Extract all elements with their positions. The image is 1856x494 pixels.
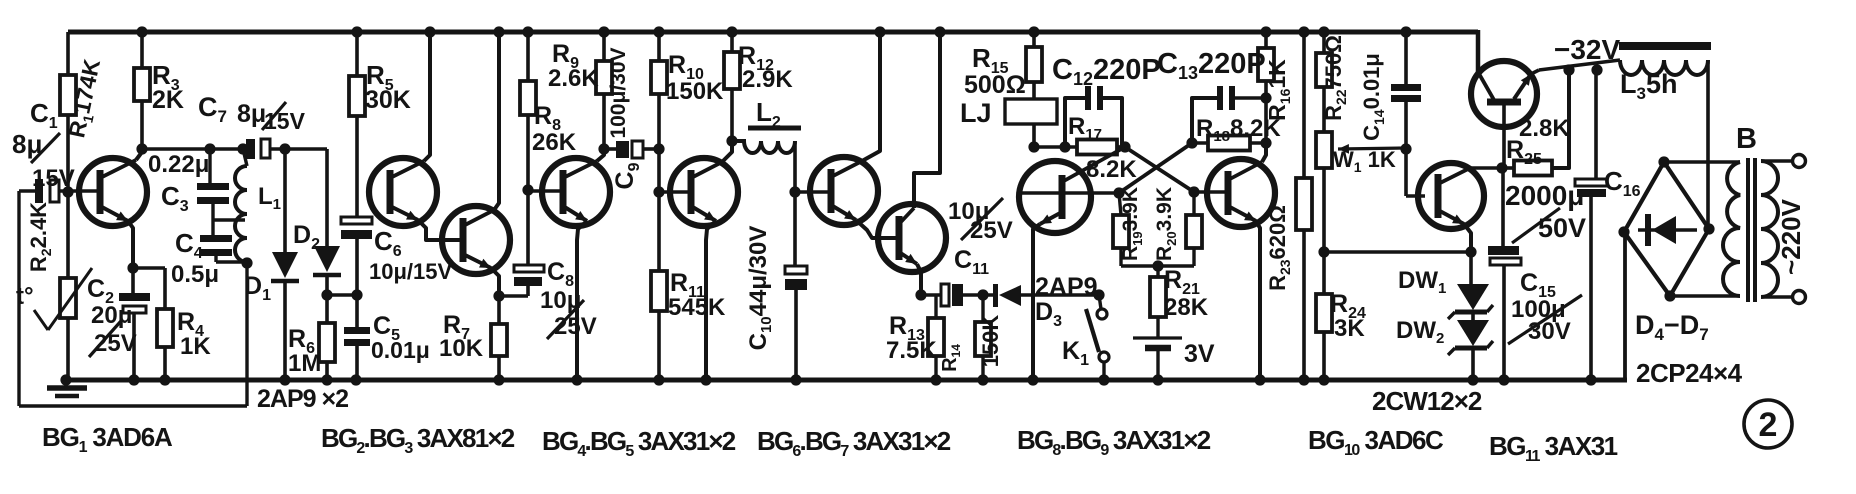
svg-text:~220V: ~220V	[1776, 198, 1806, 275]
svg-text:C13​220P: C13​220P	[1157, 48, 1266, 83]
svg-text:26K: 26K	[532, 129, 577, 156]
svg-text:0.22μ: 0.22μ	[148, 151, 209, 178]
svg-text:25V: 25V	[94, 330, 137, 357]
svg-text:C12​220P: C12​220P	[1052, 54, 1161, 89]
svg-text:−32V: −32V	[1554, 34, 1620, 65]
svg-text:1M: 1M	[288, 350, 321, 377]
svg-text:10μ/15V: 10μ/15V	[369, 259, 453, 284]
svg-text:25V: 25V	[554, 313, 597, 340]
svg-text:3V: 3V	[1184, 340, 1215, 368]
svg-text:2000μ: 2000μ	[1505, 180, 1584, 211]
svg-text:500Ω: 500Ω	[964, 71, 1026, 99]
svg-text:10K: 10K	[439, 335, 484, 362]
svg-text:L3​5h: L3​5h	[1620, 69, 1677, 103]
svg-text:BG11​ 3AX31: BG11​ 3AX31	[1489, 431, 1618, 465]
svg-text:30K: 30K	[365, 86, 411, 114]
svg-text:2CP24×4: 2CP24×4	[1636, 358, 1743, 388]
svg-text:2AP9 ×2: 2AP9 ×2	[257, 385, 348, 413]
svg-text:150K: 150K	[978, 315, 1003, 368]
svg-text:2: 2	[1759, 406, 1778, 444]
svg-text:D4​−D7​: D4​−D7​	[1635, 310, 1709, 344]
svg-text:2.9K: 2.9K	[742, 66, 793, 93]
svg-text:20μ: 20μ	[91, 302, 132, 329]
svg-text:545K: 545K	[668, 294, 726, 321]
svg-text:C14​0.01μ: C14​0.01μ	[1359, 53, 1387, 141]
svg-text:2CW12×2: 2CW12×2	[1372, 386, 1482, 416]
svg-text:2AP9: 2AP9	[1035, 273, 1098, 301]
svg-text:B: B	[1736, 123, 1757, 155]
svg-text:7.5K: 7.5K	[886, 337, 937, 364]
svg-text:0.5μ: 0.5μ	[171, 261, 219, 288]
svg-text:2.8K: 2.8K	[1519, 115, 1570, 142]
svg-text:BG2​.BG3​ 3AX81×2: BG2​.BG3​ 3AX81×2	[321, 423, 515, 457]
svg-text:W1​ 1K: W1​ 1K	[1333, 147, 1396, 175]
svg-text:50V: 50V	[1538, 213, 1586, 243]
svg-text:30V: 30V	[1528, 318, 1571, 345]
svg-text:15V: 15V	[32, 165, 75, 192]
svg-text:BG10​ 3AD6C: BG10​ 3AD6C	[1308, 425, 1444, 459]
svg-text:15V: 15V	[264, 108, 306, 134]
svg-text:25V: 25V	[970, 217, 1013, 244]
svg-text:BG4​.BG5​ 3AX31×2: BG4​.BG5​ 3AX31×2	[542, 426, 736, 460]
svg-text:BG6​.BG7​ 3AX31×2: BG6​.BG7​ 3AX31×2	[757, 426, 951, 460]
svg-text:R20​3.9K: R20​3.9K	[1153, 187, 1179, 261]
svg-text:t°: t°	[16, 283, 34, 310]
svg-text:R19​3.9K: R19​3.9K	[1119, 187, 1145, 261]
svg-text:R23​620Ω: R23​620Ω	[1265, 205, 1293, 291]
svg-text:28K: 28K	[1164, 294, 1209, 321]
svg-text:150K: 150K	[666, 78, 724, 105]
svg-text:LJ: LJ	[960, 98, 992, 128]
svg-text:2K: 2K	[152, 86, 184, 114]
svg-text:2.6K: 2.6K	[548, 65, 599, 92]
svg-text:100μ/30V: 100μ/30V	[607, 47, 630, 138]
svg-text:8.2K: 8.2K	[1086, 156, 1137, 183]
svg-text:3K: 3K	[1334, 315, 1365, 342]
svg-text:BG1​ 3AD6A: BG1​ 3AD6A	[42, 422, 173, 456]
svg-text:1K: 1K	[180, 333, 211, 360]
svg-text:BG8​.BG9​ 3AX31×2: BG8​.BG9​ 3AX31×2	[1017, 425, 1211, 459]
svg-text:0.01μ: 0.01μ	[371, 337, 430, 363]
svg-text:8μ: 8μ	[237, 100, 266, 128]
svg-text:R2​2.4K: R2​2.4K	[26, 202, 54, 272]
svg-text:R22​750Ω: R22​750Ω	[1321, 35, 1349, 121]
